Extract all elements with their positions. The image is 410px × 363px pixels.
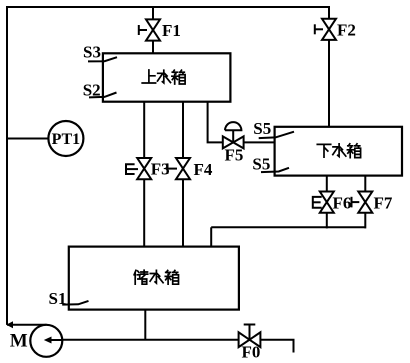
wire F2 riser xyxy=(328,7,330,128)
label S5 lower xyxy=(252,155,270,174)
wire pump discharge line xyxy=(46,339,295,341)
label S5 upper xyxy=(253,119,271,138)
label S2 xyxy=(83,81,101,100)
wire F1 riser xyxy=(152,7,154,55)
svg-text:S1: S1 xyxy=(49,289,67,308)
wire top border xyxy=(6,6,330,8)
svg-text:S5: S5 xyxy=(253,119,271,138)
wire manifold drop to storage tank xyxy=(210,227,212,247)
wire F6 drop pipe xyxy=(326,175,328,228)
label tank lower: xia xyxy=(317,144,330,157)
sensor S1 tick xyxy=(62,301,88,305)
wire PT1 stub xyxy=(6,138,50,140)
svg-text:S5: S5 xyxy=(252,155,270,174)
label F0 xyxy=(242,343,261,362)
svg-text:F0: F0 xyxy=(242,343,261,362)
label F1 xyxy=(162,21,181,40)
svg-text:S2: S2 xyxy=(83,81,101,100)
valve F7 xyxy=(352,192,373,213)
label tank storage: chu xyxy=(134,270,148,284)
valve F5 control valve with dome actuator xyxy=(223,122,244,148)
valve F3 with actuator bracket xyxy=(126,158,151,179)
tank lower (xia shui xiang) xyxy=(275,127,402,176)
label tank upper: shang xyxy=(142,70,155,83)
svg-text:S3: S3 xyxy=(83,43,101,62)
svg-text:F4: F4 xyxy=(194,160,213,179)
label F3 xyxy=(151,160,170,179)
label M xyxy=(10,331,28,352)
svg-text:F7: F7 xyxy=(374,194,393,213)
wire storage tank drain xyxy=(144,309,146,340)
valve F0 hand valve with T handle xyxy=(239,325,261,348)
wire F7 drop pipe xyxy=(364,175,366,228)
wire F3 drop pipe xyxy=(143,101,145,248)
sensor S2 tick xyxy=(89,93,117,98)
transmitter PT1 xyxy=(48,121,83,156)
label F5 xyxy=(225,146,244,165)
label tank lower: shui xyxy=(333,144,346,157)
valve F6 with actuator bracket xyxy=(313,192,334,213)
sensor S3 tick xyxy=(88,57,117,61)
valve F4 xyxy=(168,158,191,179)
arrow into pump corner xyxy=(6,321,13,328)
wire left border xyxy=(6,6,8,325)
wire F4 drop pipe xyxy=(182,101,184,248)
label F7 xyxy=(374,194,393,213)
label tank lower: xiang xyxy=(347,144,360,158)
svg-text:M: M xyxy=(10,331,28,352)
label tank upper: xiang xyxy=(172,70,185,84)
label tank storage: xiang xyxy=(165,270,178,284)
pump M xyxy=(30,325,62,357)
label tank storage: shui xyxy=(150,270,163,283)
label F2 xyxy=(337,21,356,40)
wire F5 feed pipe xyxy=(208,101,276,142)
label S3 xyxy=(83,43,101,62)
label S1 xyxy=(49,289,67,308)
svg-text:F1: F1 xyxy=(162,21,181,40)
label F4 xyxy=(194,160,213,179)
valve F1 xyxy=(139,19,160,40)
label tank upper: shui xyxy=(158,70,171,83)
sensor S5 lower tick xyxy=(261,168,289,172)
wire bottom-left return xyxy=(7,324,47,326)
wire manifold F6F7 xyxy=(211,226,366,228)
label F6 xyxy=(333,194,352,213)
svg-text:F2: F2 xyxy=(337,21,356,40)
svg-text:F5: F5 xyxy=(225,146,244,165)
wire outlet stub xyxy=(293,340,295,353)
svg-text:F6: F6 xyxy=(333,194,352,213)
valve F2 xyxy=(315,19,336,40)
tank storage (chu shui xiang) xyxy=(69,247,239,310)
svg-text:PT1: PT1 xyxy=(52,131,80,148)
tank upper (shang shui xiang) xyxy=(103,53,230,101)
sensor S5 upper tick xyxy=(259,132,294,138)
